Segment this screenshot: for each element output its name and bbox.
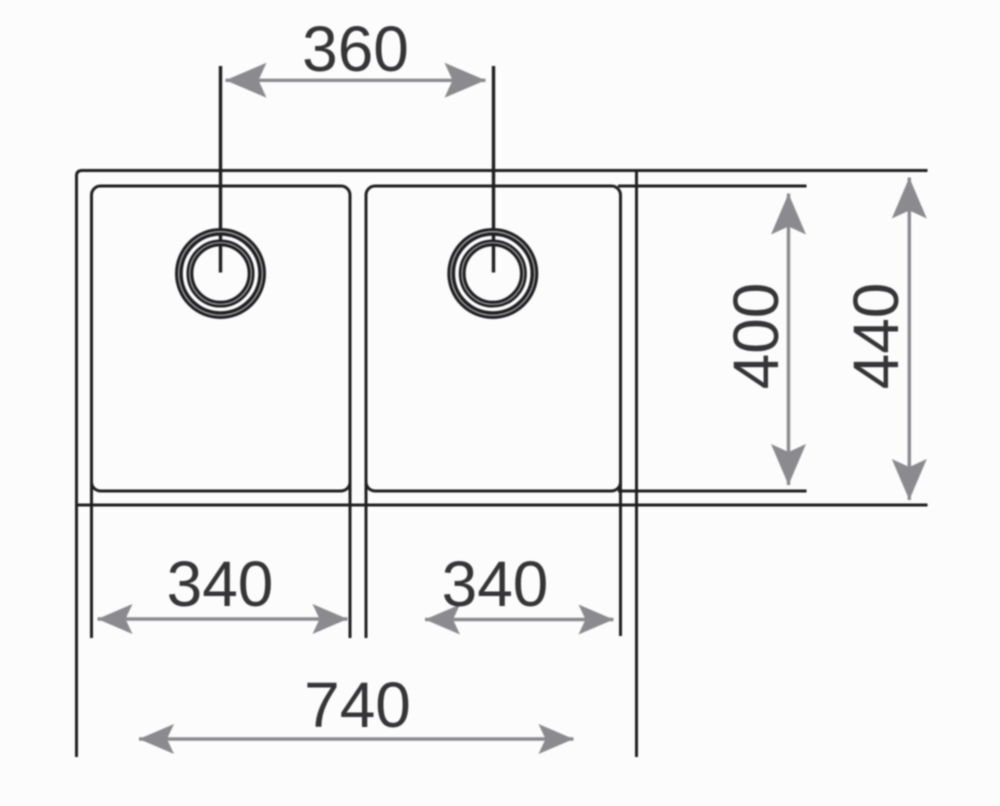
left drain outer ring (179, 232, 262, 315)
svg-text:740: 740 (304, 669, 411, 741)
divider extension line left (349, 482, 352, 638)
right bowl (366, 186, 621, 491)
divider extension line right (365, 482, 368, 638)
right drain outer ring (451, 232, 534, 315)
drain centre extension line right (492, 66, 495, 273)
dimension line 340 left (98, 617, 348, 620)
left bowl (92, 186, 351, 491)
bowl width extension line far-right (619, 482, 622, 636)
dimension line 360 (226, 79, 486, 82)
svg-text:360: 360 (302, 13, 409, 85)
svg-text:340: 340 (442, 548, 549, 620)
bowl depth extension line top (618, 185, 807, 188)
dimension line 740 (139, 737, 574, 740)
sink rim left edge + top edge (77, 171, 928, 758)
right drain inner ring (462, 243, 523, 304)
left drain inner ring (190, 243, 251, 304)
sink rim right edge (635, 169, 638, 757)
dimension line 440 (908, 178, 911, 501)
bowl width extension line far-left (90, 482, 93, 638)
dimension line 340 right (425, 618, 614, 621)
bowl depth extension line bottom (618, 490, 807, 493)
drain centre extension line left (219, 66, 222, 273)
svg-text:440: 440 (840, 283, 912, 390)
svg-text:340: 340 (167, 548, 274, 620)
svg-text:400: 400 (720, 283, 792, 390)
dimension line 400 (787, 194, 790, 486)
sink rim bottom edge (75, 504, 928, 507)
